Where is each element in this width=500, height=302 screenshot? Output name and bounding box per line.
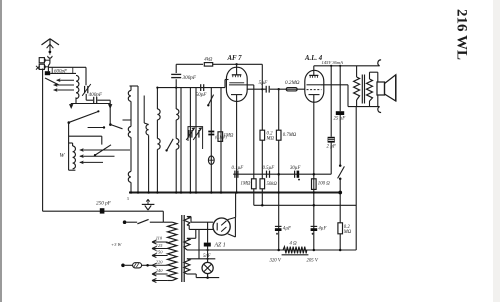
- svg-text:150: 150: [156, 250, 163, 255]
- svg-text:100 Ω: 100 Ω: [318, 181, 330, 186]
- svg-text:5nF: 5nF: [203, 254, 211, 259]
- svg-text:0.7MΩ: 0.7MΩ: [283, 133, 297, 138]
- svg-text:4kΩ: 4kΩ: [204, 58, 213, 63]
- svg-text:5µF: 5µF: [259, 80, 269, 86]
- svg-text:1MΩ: 1MΩ: [224, 134, 234, 139]
- svg-text:125: 125: [156, 243, 163, 248]
- svg-text:0.1µF: 0.1µF: [232, 166, 244, 171]
- svg-text:0.2MΩ: 0.2MΩ: [285, 80, 300, 86]
- svg-text:50kΩ: 50kΩ: [267, 182, 278, 187]
- svg-text:AZ 1: AZ 1: [214, 242, 226, 248]
- svg-text:MΩ: MΩ: [343, 230, 352, 235]
- svg-text:A.L. 4: A.L. 4: [304, 55, 323, 62]
- svg-text:25 µF: 25 µF: [334, 117, 346, 122]
- svg-text:300pF: 300pF: [183, 75, 197, 81]
- svg-text:50pF: 50pF: [196, 92, 208, 98]
- svg-text:MΩ: MΩ: [266, 137, 275, 142]
- svg-text:400pF: 400pF: [89, 91, 103, 98]
- svg-text:4µF: 4µF: [318, 227, 326, 232]
- svg-text:0.5µF: 0.5µF: [263, 166, 275, 171]
- svg-text:250 pF: 250 pF: [96, 201, 112, 207]
- svg-text:110: 110: [156, 236, 163, 241]
- svg-text:4 Ω: 4 Ω: [290, 242, 298, 247]
- svg-text:30µF: 30µF: [290, 166, 301, 171]
- svg-text:AF 7: AF 7: [227, 55, 243, 62]
- svg-text:240: 240: [156, 268, 163, 273]
- svg-text:216 WL: 216 WL: [454, 9, 470, 60]
- svg-text:205 V: 205 V: [307, 259, 319, 264]
- svg-text:220: 220: [156, 259, 163, 264]
- svg-text:+3 W: +3 W: [111, 242, 123, 247]
- svg-text:3: 3: [127, 196, 129, 201]
- svg-text:320 V: 320 V: [270, 259, 282, 264]
- svg-text:145V 36mA: 145V 36mA: [322, 60, 344, 65]
- svg-text:4µF: 4µF: [283, 227, 291, 232]
- svg-text:1MΩ: 1MΩ: [241, 182, 251, 187]
